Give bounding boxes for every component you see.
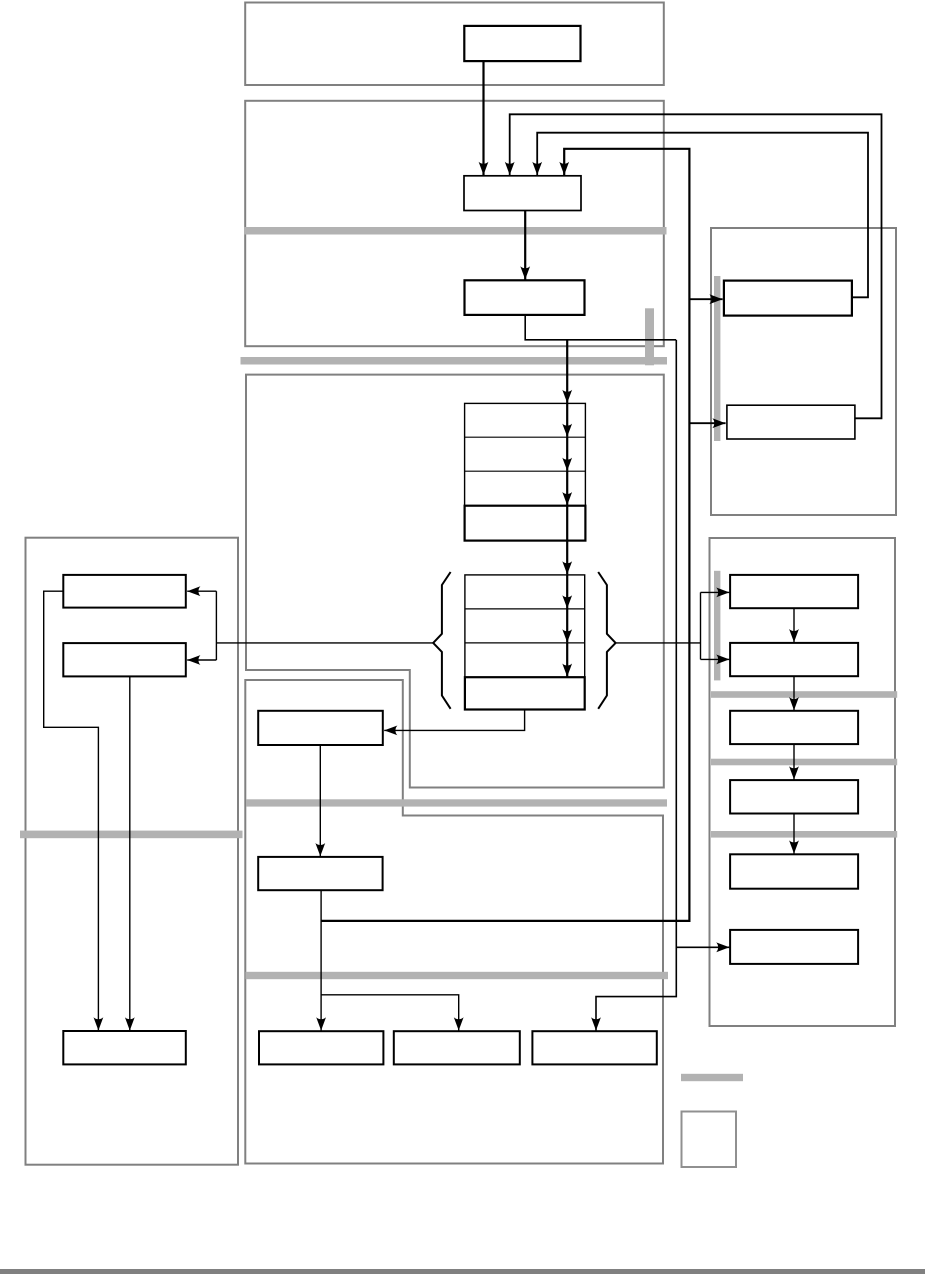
gray bar V3 (right bottom container) (714, 571, 720, 681)
wire B3 bottom elbow (525, 316, 676, 340)
gray bar V2 (right top container) (714, 276, 720, 441)
page bottom rule (0, 1269, 925, 1274)
container C2 (245, 101, 664, 346)
wire branch x676 into BR8 (676, 946, 729, 948)
wire S2 to BM1 (384, 710, 524, 731)
wire right junction vertical (700, 592, 702, 659)
wire BR6 to BR7 (793, 814, 795, 854)
wire arrow into BL2 (187, 659, 216, 661)
box BR1 (724, 281, 852, 316)
wire stack flow arrows (566, 340, 568, 403)
brace right (598, 572, 615, 709)
gray bar V1 (645, 308, 654, 365)
brace left (433, 572, 450, 709)
wire BL1 left path to BL3 (44, 591, 99, 1030)
container CL (left) (26, 538, 239, 1165)
box BR2 (727, 405, 855, 439)
wire BR4 to BR5 (793, 676, 795, 710)
wire B2 to B3 (524, 211, 526, 280)
wire feedback vertical x690 from BM2 into B2 (321, 149, 690, 921)
wire branch x690 into BR2 (689, 422, 725, 424)
wire x676 long vertical to BC (596, 340, 676, 1031)
wire feedback from BR1 into B2 (537, 133, 868, 298)
box B3 (465, 280, 585, 315)
wire left junction vertical (215, 591, 217, 660)
wire feedback from BR2 into B2 (510, 114, 882, 418)
wire BM2 to BA (320, 890, 322, 1030)
separator S_d (left container) (20, 831, 243, 839)
separator S_a (244, 227, 667, 235)
legend square (682, 1112, 737, 1168)
separator S_c (246, 799, 667, 806)
container C4 (L-shaped middle bottom) (245, 680, 663, 1164)
stack S1 flow arrows overlay (566, 403, 568, 540)
box B1 (464, 26, 580, 61)
container C6 (right bottom) (710, 538, 896, 1026)
box BM1 (258, 711, 383, 745)
box BR5 (730, 711, 858, 744)
container C1 (top) (245, 3, 664, 86)
wire arrow into BR3 (701, 591, 730, 593)
box BC (532, 1031, 656, 1064)
separator S_h (right) (711, 831, 897, 838)
container C5 (right top) (711, 228, 896, 515)
wire branch x690 into BR1 (689, 298, 722, 300)
legend thick line (681, 1074, 743, 1081)
wire BR5 to BR6 (793, 744, 795, 779)
box B2 (464, 176, 581, 211)
wire arrow into BR4 (701, 658, 730, 660)
wire BR3 to BR4 (793, 608, 795, 642)
wire branch to BB (321, 995, 459, 1031)
wire arrow into BL1 (187, 590, 216, 592)
box BL1 (63, 575, 186, 608)
wire brace line left (216, 642, 433, 644)
wire BL2 down to BL3 (129, 676, 131, 1030)
wire B1 to B2 (482, 62, 484, 176)
stack S1 (465, 403, 586, 540)
wire brace line right (616, 642, 701, 644)
box BR4 (730, 643, 858, 676)
box BR6 (730, 780, 858, 813)
stack S2 flow arrows overlay (566, 575, 568, 677)
box BR3 (730, 575, 858, 608)
container C3 (notched middle) (246, 375, 664, 788)
box BL3 (63, 1031, 186, 1064)
separator S_b (241, 357, 668, 365)
separator S_g (right) (711, 759, 897, 766)
wire BM1 to BM2 (319, 745, 321, 856)
stack S2 (465, 575, 585, 710)
box BL2 (63, 643, 186, 676)
box BR8 (730, 930, 858, 964)
separator S_f (right) (711, 691, 897, 698)
box BR7 (730, 854, 858, 888)
box BM2 (258, 857, 382, 890)
box BB (394, 1031, 520, 1064)
box BA (259, 1031, 383, 1064)
separator S_e (246, 972, 669, 979)
